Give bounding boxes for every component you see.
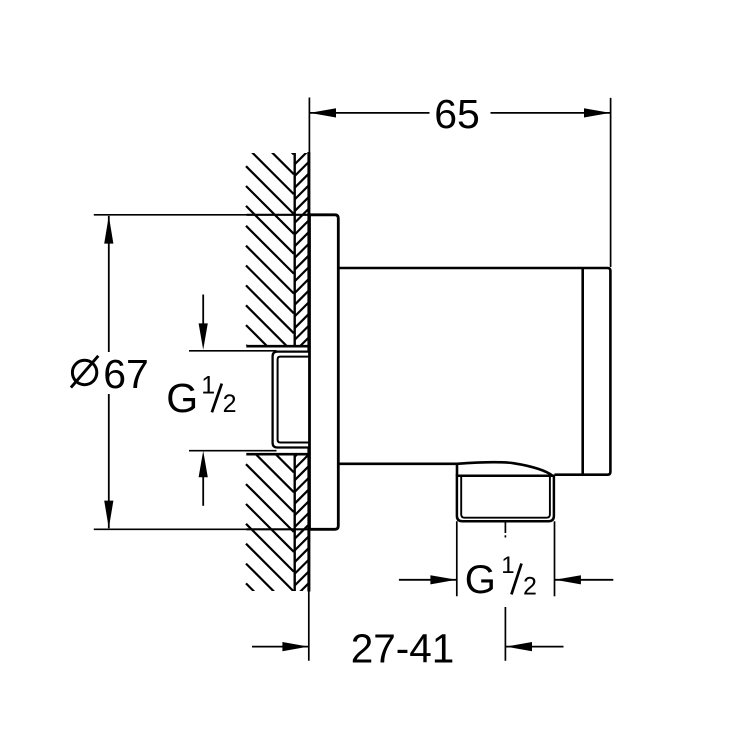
hatch inner boundary line [294, 153, 296, 345]
outlet elbow curve [457, 462, 553, 476]
svg-text:27-41: 27-41 [351, 626, 455, 672]
svg-text:G: G [166, 375, 198, 421]
outlet thread dim: right extension line [554, 521, 556, 596]
dimension O67: top extension line [94, 214, 247, 216]
wall hole ledge bottom [246, 453, 309, 456]
body bottom edge [338, 462, 457, 465]
dimension 65: left arrowhead [310, 108, 336, 117]
cap separation line [581, 268, 584, 475]
svg-text:2: 2 [223, 390, 237, 418]
dimension O67: bottom extension line [94, 528, 247, 530]
svg-text:67: 67 [103, 351, 149, 397]
wall thread callout: upper arrow [202, 295, 204, 326]
outlet thread dim: right arrow [555, 579, 613, 581]
G1/2 wall connector inner contour [278, 357, 310, 443]
dimension O67: top arrowhead [104, 216, 113, 244]
G1/2 wall connector outer contour [273, 352, 310, 448]
outlet centerline [504, 522, 506, 533]
svg-text:G: G [465, 558, 496, 602]
dimension O67: dimension line [108, 216, 110, 352]
flange (wall plate) [310, 215, 339, 530]
dimension 65: left extension line [308, 98, 310, 153]
svg-text:65: 65 [434, 91, 480, 137]
dimension 65: right arrowhead [584, 108, 610, 117]
outlet thread dim: left arrow [399, 579, 457, 581]
dimension 27-41: wall extension line [308, 592, 310, 661]
wall thread callout: upper tick line [189, 350, 277, 352]
dimension 27-41: right arrow [506, 646, 564, 648]
wall thread callout: lower tick line [189, 450, 277, 452]
outlet nut inner contour [461, 476, 550, 518]
svg-text:1: 1 [201, 371, 215, 399]
dimension 27-41: left arrow [252, 646, 309, 648]
outlet nut outer contour [457, 476, 554, 522]
dimension O67: diameter symbol [72, 360, 96, 384]
body top edge + end cap right edge + cap bottom [338, 268, 610, 475]
wall thread callout: lower arrow [202, 477, 204, 506]
dimension 65: right extension line [610, 98, 612, 267]
dimension 65: dimension line [310, 112, 430, 114]
dimension O67: bottom arrowhead [104, 501, 113, 529]
wall hole ledge top [246, 345, 309, 348]
svg-text:2: 2 [523, 572, 537, 600]
outlet neck left edge [456, 464, 459, 476]
wall coarse hatch band [246, 107, 294, 632]
svg-text:1: 1 [501, 552, 514, 579]
wall fine hatch band (plaster layer) [295, 139, 309, 609]
wall surface line [307, 152, 310, 592]
outlet thread dim: left extension line [456, 521, 458, 596]
